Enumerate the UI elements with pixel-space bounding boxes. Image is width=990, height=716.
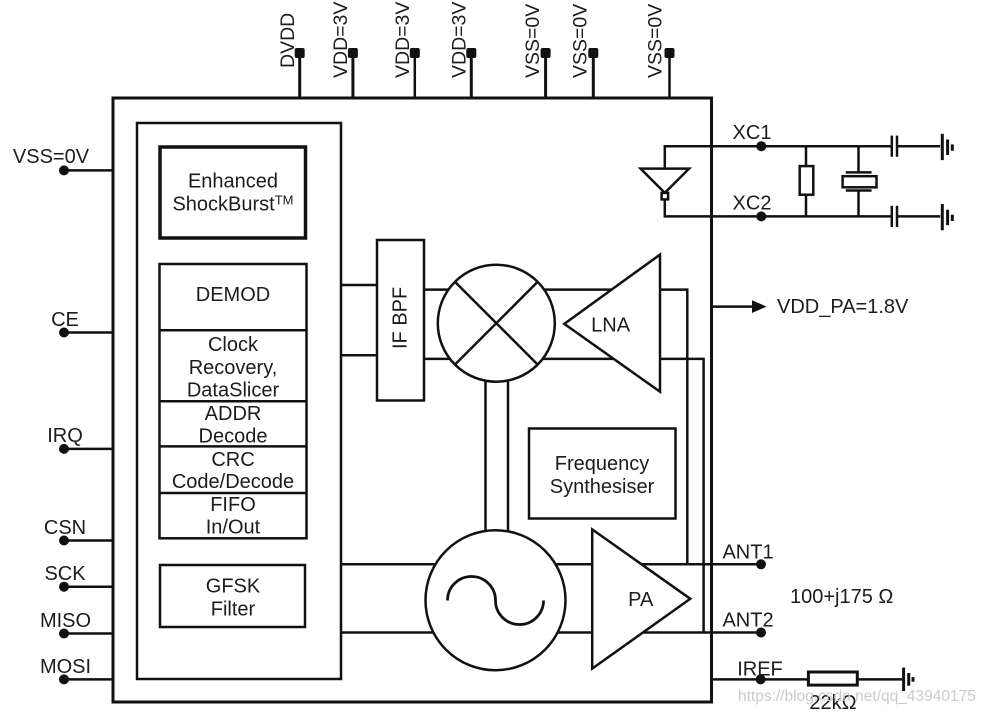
label ANT2 xyxy=(722,610,773,632)
wire VDD=3V stub 2 xyxy=(414,53,417,99)
label VSS=0V 3 xyxy=(645,4,667,78)
svg-text:Decode: Decode xyxy=(199,426,268,448)
svg-text:DataSlicer: DataSlicer xyxy=(187,380,280,402)
svg-text:VSS=0V: VSS=0V xyxy=(570,4,592,78)
svg-text:VDD_PA=1.8V: VDD_PA=1.8V xyxy=(777,296,909,318)
label XC2 xyxy=(733,193,772,215)
svg-text:Frequency: Frequency xyxy=(555,453,650,475)
svg-text:ANT2: ANT2 xyxy=(722,610,773,632)
block IF BPF xyxy=(377,240,424,401)
ground for C1 xyxy=(942,134,952,160)
svg-text:MISO: MISO xyxy=(40,610,91,632)
wire VDD=3V stub 3 xyxy=(470,53,473,99)
wire VSS=0V stub 2 xyxy=(592,53,595,99)
svg-text:100+j175 Ω: 100+j175 Ω xyxy=(790,586,893,608)
svg-text:Code/Decode: Code/Decode xyxy=(172,471,294,493)
wire VSS=0V stub 3 xyxy=(668,53,671,99)
inverter crystal driver U1 xyxy=(641,169,690,200)
amplifier PA xyxy=(592,529,690,668)
wire GFSK to oscillator to PA to ANT2 xyxy=(341,631,761,634)
label ANT1 xyxy=(722,542,773,564)
svg-text:IREF: IREF xyxy=(737,659,783,681)
svg-text:ShockBurstTM: ShockBurstTM xyxy=(172,193,293,216)
svg-text:Filter: Filter xyxy=(211,599,256,621)
svg-text:Synthesiser: Synthesiser xyxy=(550,476,655,498)
node VSS dot 3 xyxy=(665,48,675,58)
label CE xyxy=(51,309,79,331)
amplifier LNA xyxy=(564,255,660,392)
svg-text:XC1: XC1 xyxy=(733,122,772,144)
svg-text:XC2: XC2 xyxy=(733,193,772,215)
label SCK xyxy=(44,563,86,585)
label 100+j175 ohm xyxy=(790,586,893,608)
chip outer box xyxy=(113,98,712,702)
wire GFSK to oscillator to PA to ANT1 xyxy=(341,563,761,566)
wire XC1 xyxy=(665,146,892,168)
ground for C2 xyxy=(942,204,952,230)
svg-text:IF BPF: IF BPF xyxy=(390,287,412,349)
svg-text:In/Out: In/Out xyxy=(206,517,261,539)
wire VSS=0V left pin xyxy=(62,169,113,172)
wire IRQ pin xyxy=(62,448,113,451)
label VSS=0V 1 xyxy=(522,4,544,78)
svg-text:DVDD: DVDD xyxy=(277,13,299,68)
svg-text:MOSI: MOSI xyxy=(40,656,91,678)
svg-text:VDD=3V: VDD=3V xyxy=(449,2,471,78)
svg-text:PA: PA xyxy=(628,589,654,611)
wire IREF pin xyxy=(712,678,809,681)
svg-text:SCK: SCK xyxy=(44,563,86,585)
svg-text:VDD=3V: VDD=3V xyxy=(392,2,414,78)
label VSS=0V 2 xyxy=(570,4,592,78)
node SCK dot xyxy=(59,582,69,592)
label CSN xyxy=(44,517,86,539)
svg-text:ADDR: ADDR xyxy=(205,403,262,425)
node MISO dot xyxy=(59,629,69,639)
label MOSI xyxy=(40,656,91,678)
wire mixer to oscillator right xyxy=(507,378,510,532)
wire VDD=3V stub 1 xyxy=(351,53,354,99)
svg-text:DEMOD: DEMOD xyxy=(196,284,270,306)
wire inner box to IF BPF upper xyxy=(341,284,377,287)
resistor R1 crystal bias xyxy=(800,146,814,215)
ground for R2 xyxy=(904,668,913,691)
wire mixer to oscillator left xyxy=(484,378,487,532)
node IREF dot xyxy=(756,674,766,684)
label IRQ xyxy=(47,425,83,447)
svg-text:CSN: CSN xyxy=(44,517,86,539)
wire MISO pin xyxy=(62,632,113,635)
svg-text:IRQ: IRQ xyxy=(47,425,83,447)
node VDD dot 3 xyxy=(466,48,476,58)
svg-text:VSS=0V: VSS=0V xyxy=(522,4,544,78)
crystal X1 xyxy=(843,146,877,215)
node XC1 dot xyxy=(756,141,766,151)
node ANT2 dot xyxy=(756,628,766,638)
wire inner box to IF BPF lower xyxy=(341,354,377,357)
svg-text:VSS=0V: VSS=0V xyxy=(645,4,667,78)
svg-text:ANT1: ANT1 xyxy=(722,542,773,564)
node VSS dot 1 xyxy=(541,48,551,58)
svg-text:LNA: LNA xyxy=(591,315,631,337)
svg-text:https://blog.csdn.net/qq_43940: https://blog.csdn.net/qq_43940175 xyxy=(738,688,976,705)
wire VSS=0V stub 1 xyxy=(544,53,547,99)
block Enhanced ShockBurst xyxy=(160,147,306,238)
svg-text:VDD=3V: VDD=3V xyxy=(330,2,352,78)
capacitor C1 on XC1 xyxy=(892,136,940,157)
svg-text:CRC: CRC xyxy=(211,449,254,471)
svg-text:FIFO: FIFO xyxy=(210,494,256,516)
node DVDD dot xyxy=(295,48,305,58)
capacitor C2 on XC2 xyxy=(892,206,940,227)
label MISO xyxy=(40,610,91,632)
label VDD=3V 3 xyxy=(449,2,471,78)
resistor R2 22k xyxy=(808,672,903,685)
label VSS=0V left xyxy=(13,146,90,168)
label XC1 xyxy=(733,122,772,144)
svg-text:VSS=0V: VSS=0V xyxy=(13,146,90,168)
wire XC2 xyxy=(665,200,892,217)
node IRQ dot xyxy=(59,444,69,454)
node CSN dot xyxy=(59,536,69,546)
wire CSN pin xyxy=(62,539,113,542)
node MOSI dot xyxy=(59,674,69,684)
label VDD_PA=1.8V xyxy=(777,296,909,318)
wire IF BPF to mixer to LNA lower, drops to ANT2 xyxy=(424,359,704,633)
label VDD=3V 1 xyxy=(330,2,352,78)
label VDD=3V 2 xyxy=(392,2,414,78)
wire IF BPF to mixer to LNA upper, drops to ANT1 xyxy=(424,290,687,565)
node VSS=0V dot xyxy=(59,165,69,175)
oscillator VCO xyxy=(426,530,566,670)
watermark xyxy=(738,688,976,705)
block GFSK Filter xyxy=(160,565,305,627)
block stack DEMOD xyxy=(160,264,307,539)
svg-text:Enhanced: Enhanced xyxy=(188,171,278,193)
wire MOSI pin xyxy=(62,678,113,681)
node VSS dot 2 xyxy=(588,48,598,58)
svg-text:CE: CE xyxy=(51,309,79,331)
wire SCK pin xyxy=(62,585,113,588)
label DVDD xyxy=(277,13,299,68)
svg-text:Clock: Clock xyxy=(208,334,259,356)
svg-text:Recovery,: Recovery, xyxy=(189,357,278,379)
node CE dot xyxy=(59,328,69,338)
node ANT1 dot xyxy=(756,559,766,569)
mixer M1 xyxy=(438,265,555,382)
wire CE pin xyxy=(62,331,113,334)
label 22k ohm xyxy=(809,692,856,714)
node VDD dot 1 xyxy=(348,48,358,58)
svg-text:GFSK: GFSK xyxy=(206,576,261,598)
VDD_PA arrow xyxy=(712,300,767,313)
node VDD dot 2 xyxy=(410,48,420,58)
wire DVDD stub xyxy=(298,53,301,99)
label IREF xyxy=(737,659,783,681)
node XC2 dot xyxy=(756,211,766,221)
digital inner box xyxy=(137,123,341,679)
block Frequency Synthesiser xyxy=(529,429,676,519)
